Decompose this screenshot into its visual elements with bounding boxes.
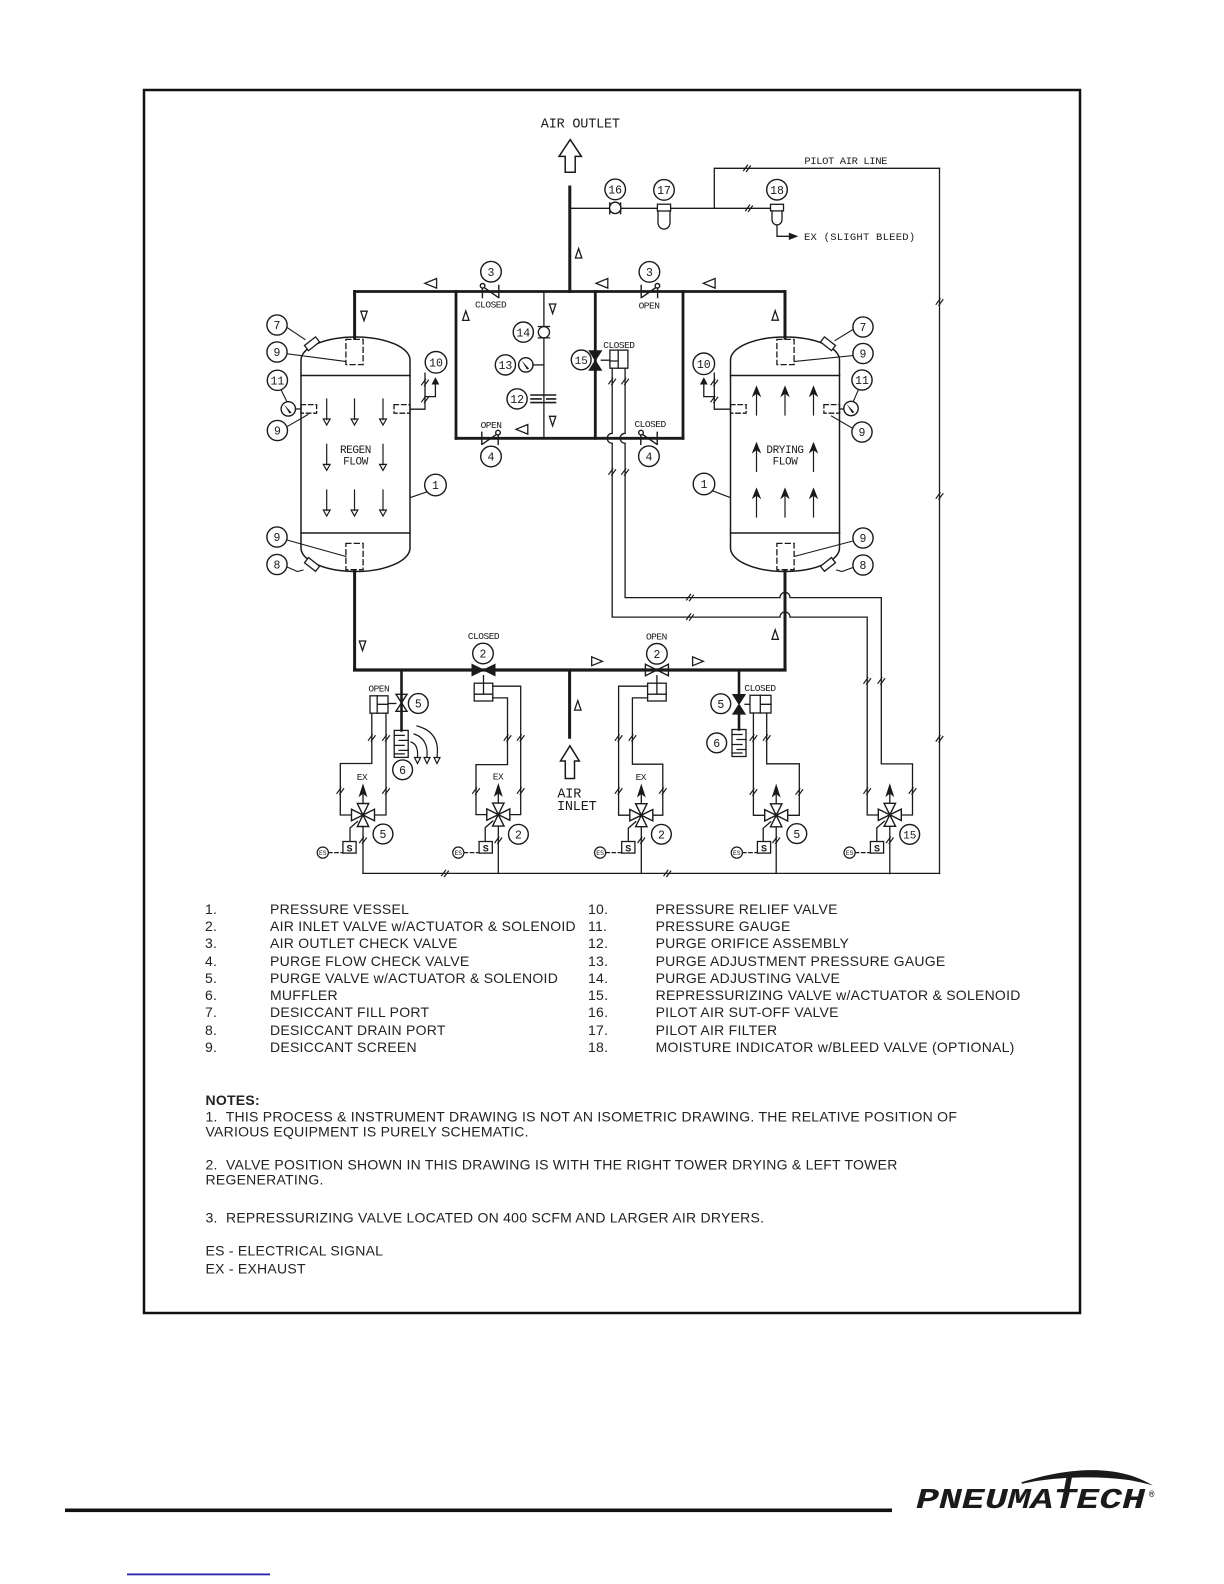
svg-text:REPRESSURIZING VALVE w/ACTUATO: REPRESSURIZING VALVE w/ACTUATOR & SOLENO… <box>656 987 1021 1003</box>
svg-text:18.: 18. <box>588 1039 608 1055</box>
svg-text:3.: 3. <box>205 935 217 951</box>
repressurizing valve 15 (closed) <box>589 351 601 371</box>
svg-text:CLOSED: CLOSED <box>475 300 507 311</box>
wire: valve 15 pilot pair (upper run) <box>620 368 912 815</box>
svg-text:CLOSED: CLOSED <box>634 419 666 430</box>
valve 15 actuator box <box>601 350 628 368</box>
label circle 14 <box>513 322 533 342</box>
svg-text:2: 2 <box>658 830 665 843</box>
desiccant screen bottom (right tower) <box>777 543 794 569</box>
air inlet valve 2 left (closed) <box>472 664 495 675</box>
flow triangles on top manifold <box>425 279 437 289</box>
svg-text:12.: 12. <box>588 935 608 951</box>
desiccant drain port nozzle (left tower) <box>305 558 320 572</box>
desiccant screen top (right tower) <box>777 339 794 364</box>
svg-text:REGEN: REGEN <box>340 445 371 457</box>
label circle 13 <box>495 355 515 375</box>
svg-text:PILOT AIR SUT-OFF VALVE: PILOT AIR SUT-OFF VALVE <box>656 1004 839 1020</box>
flow triangle below left tower pipe <box>359 641 365 651</box>
svg-text:5: 5 <box>415 699 422 712</box>
label circle 10 left <box>425 352 447 374</box>
purge assembly box right wall <box>682 292 685 439</box>
svg-text:9: 9 <box>274 426 281 439</box>
svg-text:3: 3 <box>646 267 653 280</box>
purge flow check valve 4 left (open) <box>482 430 501 444</box>
Pneumatech logo swoosh <box>1021 1470 1153 1485</box>
bleed elbow with arrow on 18 <box>777 226 797 239</box>
pressure relief valve 10 (left tower) <box>410 373 438 409</box>
blue footer link line <box>127 1574 270 1576</box>
wire: pilot branch line (16/17/18) <box>570 207 771 209</box>
line break marks on pilot air line <box>744 165 751 171</box>
svg-text:DESICCANT FILL PORT: DESICCANT FILL PORT <box>270 1004 430 1020</box>
label circle 15 <box>571 350 591 370</box>
svg-text:FLOW: FLOW <box>343 457 369 469</box>
label circle 1 right <box>693 473 715 495</box>
svg-text:7: 7 <box>274 320 281 333</box>
desiccant fill port nozzle (right tower) <box>820 337 835 351</box>
svg-text:5.: 5. <box>205 970 217 986</box>
wire: valve 2 left pilot lines <box>493 686 521 814</box>
svg-text:3. REPRESSURIZING VALVE LOCAT: 3. REPRESSURIZING VALVE LOCATED ON 400 S… <box>206 1210 765 1226</box>
pilot air filter 17 <box>657 204 670 229</box>
svg-text:OPEN: OPEN <box>646 632 667 643</box>
wire: right tower top pipe <box>784 292 787 339</box>
svg-text:®: ® <box>1149 1490 1155 1500</box>
svg-text:EX: EX <box>493 772 504 783</box>
svg-text:DESICCANT SCREEN: DESICCANT SCREEN <box>270 1039 417 1055</box>
flow triangles in purge channel <box>549 304 555 314</box>
valve 5 left actuator box <box>370 696 396 713</box>
label circle 12 <box>507 389 527 409</box>
label circle 9 top-left <box>267 342 287 362</box>
svg-text:6: 6 <box>713 738 720 751</box>
svg-text:6: 6 <box>399 765 406 778</box>
purge assembly box left wall <box>455 292 458 439</box>
svg-text:AIR OUTLET CHECK VALVE: AIR OUTLET CHECK VALVE <box>270 935 458 951</box>
air inlet valve 2 right (open) <box>645 664 668 675</box>
svg-text:4: 4 <box>488 452 495 465</box>
svg-text:2: 2 <box>653 649 660 662</box>
svg-text:10: 10 <box>697 359 711 372</box>
svg-text:OPEN: OPEN <box>368 684 389 695</box>
label circle 9 bottom-left <box>267 527 287 547</box>
svg-text:AIR OUTLET: AIR OUTLET <box>541 118 620 133</box>
label circle 9 bottom-right <box>853 528 873 548</box>
flow triangle above mid manifold <box>516 425 528 435</box>
muffler 6 right <box>732 730 746 757</box>
desiccant fill port nozzle (left tower) <box>305 337 320 351</box>
line break marks on pilot branch <box>746 205 753 211</box>
svg-text:15: 15 <box>903 831 916 843</box>
pressure gauge 11 (left tower) <box>295 408 301 410</box>
svg-text:CLOSED: CLOSED <box>468 631 500 642</box>
purge valve 5 right (closed) <box>733 695 745 715</box>
wire: left tower top pipe <box>353 292 356 339</box>
svg-text:CLOSED: CLOSED <box>744 683 776 694</box>
flow triangle on right tower top pipe <box>772 311 778 321</box>
muffler 6 left <box>394 730 408 757</box>
flow triangle on right tower bottom pipe <box>772 630 778 640</box>
wire: left purge drop <box>400 670 403 730</box>
label circle 10 right <box>693 353 715 375</box>
drying flow up arrows <box>753 387 760 415</box>
gauge port dashed (left tower) <box>301 405 317 414</box>
flow triangle on outlet riser <box>575 249 581 259</box>
svg-text:DRYING: DRYING <box>766 445 803 457</box>
wire: valve 5 left pilot lines <box>340 713 372 815</box>
svg-text:PILOT AIR LINE: PILOT AIR LINE <box>804 156 887 168</box>
air inlet hollow arrow <box>561 746 580 779</box>
svg-text:10: 10 <box>429 358 443 371</box>
svg-text:ES - ELECTRICAL SIGNAL: ES - ELECTRICAL SIGNAL <box>206 1243 384 1259</box>
svg-text:EX - EXHAUST: EX - EXHAUST <box>206 1261 306 1277</box>
svg-text:PURGE FLOW CHECK VALVE: PURGE FLOW CHECK VALVE <box>270 953 469 969</box>
wire: valve 2 right pilot lines <box>619 686 648 815</box>
purge orifice assembly 12 <box>531 395 556 403</box>
svg-text:PILOT AIR FILTER: PILOT AIR FILTER <box>656 1022 778 1038</box>
svg-text:7: 7 <box>860 322 867 335</box>
svg-text:MOISTURE INDICATOR w/BLEED VAL: MOISTURE INDICATOR w/BLEED VALVE (OPTION… <box>656 1039 1015 1055</box>
moisture indicator 18 <box>771 204 784 225</box>
svg-text:8.: 8. <box>205 1022 217 1038</box>
purge assembly inner light wall <box>543 292 545 439</box>
svg-text:10.: 10. <box>588 901 608 917</box>
wire: top manifold <box>355 290 785 293</box>
svg-text:REGENERATING.: REGENERATING. <box>206 1172 324 1188</box>
wire: valve 15 pilot pair (lower run) <box>607 368 878 815</box>
svg-text:11: 11 <box>270 376 284 389</box>
svg-text:17: 17 <box>657 185 671 198</box>
svg-text:2.: 2. <box>205 918 217 934</box>
svg-text:2. VALVE POSITION SHOWN IN TH: 2. VALVE POSITION SHOWN IN THIS DRAWING … <box>206 1157 898 1173</box>
svg-text:13: 13 <box>498 360 512 373</box>
svg-text:15: 15 <box>575 356 588 368</box>
svg-text:VARIOUS EQUIPMENT IS PURELY SC: VARIOUS EQUIPMENT IS PURELY SCHEMATIC. <box>206 1124 529 1140</box>
svg-text:14.: 14. <box>588 970 608 986</box>
svg-text:16.: 16. <box>588 1004 608 1020</box>
label circle 9 mid-right <box>852 422 872 442</box>
wire: left tower bottom pipe <box>353 572 356 671</box>
wire: air outlet riser <box>568 187 571 292</box>
svg-text:PRESSURE RELIEF VALVE: PRESSURE RELIEF VALVE <box>656 901 838 917</box>
wire: mid manifold <box>456 437 683 440</box>
svg-text:CLOSED: CLOSED <box>603 340 635 351</box>
svg-text:5: 5 <box>793 829 800 842</box>
svg-text:5: 5 <box>717 699 724 712</box>
air outlet hollow arrow <box>559 140 581 173</box>
wire: right tower bottom pipe <box>784 572 787 671</box>
label circle 1 left <box>425 474 447 496</box>
svg-text:5: 5 <box>380 829 387 842</box>
svg-text:9: 9 <box>860 533 867 546</box>
svg-text:FLOW: FLOW <box>773 457 799 469</box>
svg-text:OPEN: OPEN <box>481 420 502 431</box>
svg-text:3: 3 <box>488 267 495 280</box>
svg-text:AIR INLET VALVE w/ACTUATOR & S: AIR INLET VALVE w/ACTUATOR & SOLENOID <box>270 918 576 934</box>
label circle 9 mid-left <box>267 420 287 440</box>
svg-text:14: 14 <box>516 327 530 340</box>
purge assembly inner heavy wall <box>594 292 597 439</box>
svg-text:OPEN: OPEN <box>639 301 660 312</box>
svg-text:9: 9 <box>274 532 281 545</box>
svg-text:PRESSURE VESSEL: PRESSURE VESSEL <box>270 901 409 917</box>
wire: bottom manifold <box>355 668 785 671</box>
svg-text:PNEUMATECH: PNEUMATECH <box>916 1484 1146 1517</box>
pressure relief valve 10 (right tower) <box>701 373 731 409</box>
svg-text:17.: 17. <box>588 1022 608 1038</box>
svg-text:1. THIS PROCESS & INSTRUMENT: 1. THIS PROCESS & INSTRUMENT DRAWING IS … <box>206 1109 958 1125</box>
Pneumatech logo T tall stem <box>1062 1477 1073 1503</box>
desiccant screen bottom (left tower) <box>346 543 363 569</box>
label circle 11 right <box>852 370 872 390</box>
pilot shut-off valve 16 <box>610 202 621 214</box>
svg-text:EX: EX <box>636 772 647 783</box>
svg-text:PURGE VALVE w/ACTUATOR & SOLEN: PURGE VALVE w/ACTUATOR & SOLENOID <box>270 970 558 986</box>
label circle 8 left <box>267 554 287 574</box>
svg-text:EX: EX <box>357 772 368 783</box>
label circle 7 right <box>853 317 873 337</box>
pressure gauge 11 (right tower) <box>840 408 844 410</box>
label circle 11 left <box>267 370 287 390</box>
svg-text:11.: 11. <box>588 918 607 934</box>
label circle 8 right <box>853 555 873 575</box>
pressure vessel 1 (left tower, regen) <box>301 337 410 572</box>
svg-text:16: 16 <box>608 185 622 198</box>
svg-text:12: 12 <box>510 394 524 407</box>
wire: riser from branch to pilot air line <box>714 168 939 208</box>
purge flow check valve 4 right (closed) <box>639 430 658 444</box>
svg-text:4.: 4. <box>205 953 217 969</box>
exhaust valve assembly 5 (repressurizing valve 15) <box>878 803 901 826</box>
regen flow down arrows <box>323 399 330 425</box>
purge adjusting valve 14 <box>538 327 549 338</box>
svg-text:7.: 7. <box>205 1004 217 1020</box>
prv port dashed (right tower) <box>731 405 747 414</box>
svg-text:9: 9 <box>860 349 867 362</box>
desiccant drain port nozzle (right tower) <box>820 558 835 572</box>
flow triangle on air inlet riser <box>575 701 581 711</box>
svg-text:2: 2 <box>515 830 522 843</box>
svg-text:6.: 6. <box>205 987 217 1003</box>
wire: pilot air line right drop <box>939 168 941 873</box>
svg-text:DESICCANT DRAIN PORT: DESICCANT DRAIN PORT <box>270 1022 446 1038</box>
svg-text:1: 1 <box>432 480 439 493</box>
wire: right purge drop <box>738 670 741 696</box>
exhaust valve assembly 1 (purge valve 5 left) <box>352 804 375 827</box>
exhaust valve assembly 2 (inlet valve 2 left) <box>487 803 510 826</box>
air outlet check valve 3 right (open) <box>641 284 660 298</box>
svg-text:8: 8 <box>274 560 281 573</box>
muffler exhaust arcs <box>411 726 440 764</box>
footer rule <box>65 1509 892 1513</box>
exhaust valve assembly 3 (inlet valve 2 right) <box>630 804 653 827</box>
wire: right purge valve to muffler <box>738 713 741 730</box>
purge adjustment pressure gauge 13 <box>533 364 544 366</box>
svg-text:PURGE ADJUSTMENT PRESSURE GAUG: PURGE ADJUSTMENT PRESSURE GAUGE <box>656 953 946 969</box>
air outlet check valve 3 left (closed) <box>480 284 499 298</box>
svg-text:PRESSURE GAUGE: PRESSURE GAUGE <box>656 918 791 934</box>
wire: valve 5 right pilot lines <box>753 713 764 815</box>
label circle 16 <box>605 179 626 200</box>
purge valve 5 left (open) <box>396 694 407 711</box>
svg-text:2: 2 <box>480 649 487 662</box>
label circle 18 <box>767 179 788 200</box>
flow triangle on left tower top pipe <box>361 311 367 321</box>
drawing sheet border <box>144 90 1080 1313</box>
wire: air inlet riser <box>568 670 571 737</box>
label circle 9 top-right <box>853 343 873 363</box>
svg-text:PURGE ORIFICE ASSEMBLY: PURGE ORIFICE ASSEMBLY <box>656 935 850 951</box>
svg-text:4: 4 <box>645 451 652 464</box>
pressure vessel 1 (right tower, drying) <box>731 337 840 572</box>
svg-text:9.: 9. <box>205 1039 217 1055</box>
svg-text:1: 1 <box>701 479 708 492</box>
svg-text:PURGE ADJUSTING VALVE: PURGE ADJUSTING VALVE <box>656 970 840 986</box>
svg-text:NOTES:: NOTES: <box>206 1092 260 1108</box>
flow triangle inside box upper-left <box>463 311 469 321</box>
svg-text:8: 8 <box>860 560 867 573</box>
svg-text:18: 18 <box>770 185 784 198</box>
exhaust valve assembly 4 (purge valve 5 right) <box>765 804 788 827</box>
desiccant screen top (left tower) <box>346 339 363 364</box>
valve 5 right actuator box <box>745 695 771 713</box>
svg-text:1.: 1. <box>205 901 217 917</box>
label circle 7 left <box>267 315 287 335</box>
svg-text:EX (SLIGHT BLEED): EX (SLIGHT BLEED) <box>804 232 915 244</box>
svg-text:INLET: INLET <box>557 800 597 815</box>
flow triangles on bottom manifold <box>592 657 603 666</box>
svg-text:MUFFLER: MUFFLER <box>270 987 338 1003</box>
gauge port dashed (right tower) <box>824 405 840 414</box>
svg-text:15.: 15. <box>588 987 608 1003</box>
svg-text:9: 9 <box>859 427 866 440</box>
svg-text:11: 11 <box>855 375 869 388</box>
svg-text:9: 9 <box>274 347 281 360</box>
svg-text:13.: 13. <box>588 953 608 969</box>
wire: pilot distribution bottom line <box>363 872 940 874</box>
label circle 17 <box>654 180 675 201</box>
prv port dashed (left tower) <box>394 405 410 414</box>
